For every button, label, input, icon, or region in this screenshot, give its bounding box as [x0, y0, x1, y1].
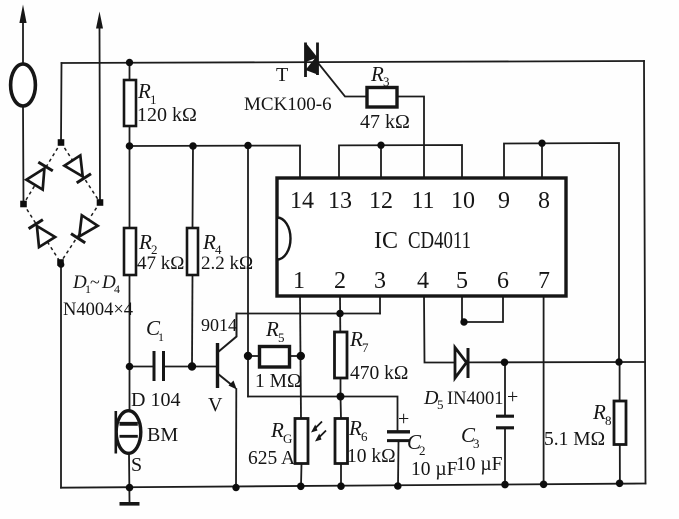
svg-text:4: 4 — [114, 282, 120, 296]
svg-text:2: 2 — [334, 268, 346, 294]
svg-text:10 µF: 10 µF — [411, 459, 458, 480]
svg-text:3: 3 — [374, 268, 386, 294]
svg-text:+: + — [507, 386, 518, 408]
svg-text:BM: BM — [147, 424, 178, 446]
svg-text:5: 5 — [437, 397, 444, 412]
svg-text:5.1 MΩ: 5.1 MΩ — [544, 429, 605, 450]
svg-text:9014: 9014 — [201, 315, 237, 335]
svg-text:4: 4 — [417, 268, 429, 294]
svg-text:IC: IC — [374, 228, 398, 254]
svg-text:R: R — [370, 62, 384, 86]
svg-text:1: 1 — [158, 330, 164, 344]
svg-text:V: V — [208, 394, 223, 416]
svg-text:T: T — [276, 64, 288, 86]
svg-text:47 kΩ: 47 kΩ — [360, 111, 410, 133]
svg-text:10 µF: 10 µF — [456, 454, 503, 475]
svg-text:6: 6 — [361, 429, 368, 444]
svg-text:2.2 kΩ: 2.2 kΩ — [201, 253, 253, 274]
svg-text:IN4001: IN4001 — [447, 389, 504, 409]
svg-text:120 kΩ: 120 kΩ — [137, 104, 197, 126]
svg-text:R: R — [265, 317, 279, 341]
svg-text:S: S — [131, 454, 142, 476]
svg-text:R: R — [202, 230, 216, 254]
svg-text:6: 6 — [497, 268, 509, 294]
svg-text:R: R — [349, 327, 363, 351]
svg-text:10: 10 — [451, 188, 475, 214]
svg-text:625 A: 625 A — [248, 448, 295, 469]
svg-text:3: 3 — [383, 74, 390, 89]
svg-text:2: 2 — [419, 443, 426, 458]
svg-text:5: 5 — [456, 268, 468, 294]
svg-text:11: 11 — [411, 188, 434, 214]
svg-text:~: ~ — [90, 272, 100, 292]
svg-text:R: R — [592, 400, 606, 424]
svg-text:10 kΩ: 10 kΩ — [347, 446, 396, 467]
svg-text:3: 3 — [473, 436, 480, 451]
svg-text:R: R — [137, 79, 151, 103]
svg-text:1: 1 — [293, 268, 305, 294]
svg-text:14: 14 — [290, 188, 314, 214]
svg-text:13: 13 — [328, 188, 352, 214]
svg-text:8: 8 — [538, 188, 550, 214]
svg-text:1 MΩ: 1 MΩ — [255, 371, 301, 392]
svg-text:9: 9 — [498, 188, 510, 214]
svg-text:N4004×4: N4004×4 — [63, 300, 133, 320]
svg-text:7: 7 — [362, 340, 369, 355]
svg-text:D 104: D 104 — [131, 389, 180, 411]
svg-text:8: 8 — [605, 413, 612, 428]
svg-text:MCK100-6: MCK100-6 — [244, 94, 332, 115]
svg-text:R: R — [348, 416, 362, 440]
svg-text:12: 12 — [369, 188, 393, 214]
svg-text:+: + — [398, 408, 409, 430]
svg-text:R: R — [270, 418, 284, 442]
svg-text:G: G — [283, 431, 292, 446]
svg-text:470 kΩ: 470 kΩ — [350, 363, 408, 384]
svg-text:7: 7 — [538, 268, 550, 294]
svg-text:5: 5 — [278, 330, 285, 345]
svg-text:R: R — [138, 230, 152, 254]
svg-text:CD4011: CD4011 — [408, 228, 471, 254]
svg-text:47 kΩ: 47 kΩ — [137, 253, 184, 274]
